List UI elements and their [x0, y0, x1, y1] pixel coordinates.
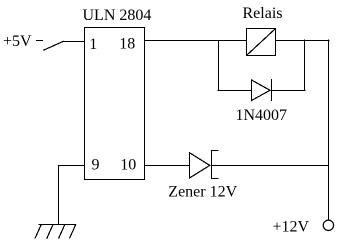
svg-text:+12V: +12V — [273, 219, 310, 236]
svg-text:1: 1 — [89, 36, 97, 53]
ground hatch 4 — [70, 225, 76, 238]
wire pin1 — [63, 41, 85, 43]
ground hatch 1 — [35, 225, 41, 238]
relay K1 diagonal — [247, 29, 275, 55]
svg-text:10: 10 — [120, 157, 136, 174]
wire diode anode — [218, 90, 252, 92]
zener D2 triangle — [190, 153, 210, 178]
switch S1 contact dash — [37, 40, 43, 42]
ground hatch 3 — [59, 225, 65, 238]
op-amp U1 ULN2804 IC box — [85, 28, 145, 180]
terminal circle +12V — [323, 220, 333, 230]
svg-text:Zener 12V: Zener 12V — [168, 184, 237, 201]
switch S1 blade — [44, 42, 63, 51]
relay K1 box — [247, 29, 276, 56]
diode D1 1N4007 triangle — [252, 80, 271, 101]
svg-text:ULN 2804: ULN 2804 — [83, 7, 152, 24]
wire pin18 to relay — [145, 40, 247, 42]
wire relay right — [276, 40, 330, 42]
wire zener cathode to right rail — [212, 165, 329, 167]
zener D2 cathode bar with hooks — [212, 151, 219, 179]
svg-text:Relais: Relais — [243, 5, 283, 22]
svg-text:+5V: +5V — [3, 33, 32, 50]
wire right vertical to +12V terminal — [328, 40, 330, 220]
svg-text:1N4007: 1N4007 — [236, 107, 288, 124]
wire diode cathode — [272, 90, 306, 92]
ground bar — [39, 224, 76, 226]
ground hatch 2 — [47, 225, 53, 238]
svg-text:18: 18 — [119, 36, 135, 53]
diode D1 cathode bar — [271, 80, 273, 101]
wire junction drop left of diode — [218, 41, 220, 91]
wire pin10 to zener — [145, 165, 190, 167]
wire junction rise right of diode — [304, 40, 306, 91]
wire pin9 — [59, 165, 85, 167]
svg-text:9: 9 — [92, 157, 100, 174]
wire pin9 down to ground — [58, 166, 60, 225]
